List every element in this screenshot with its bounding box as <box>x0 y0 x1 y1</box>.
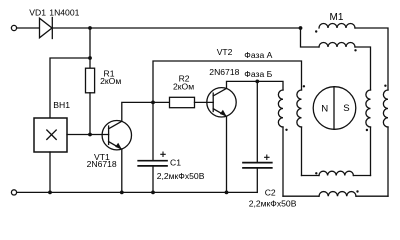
coil M1 right winding R1 <box>366 90 371 176</box>
polarity dot R1 <box>366 129 368 131</box>
svg-text:C2: C2 <box>265 187 276 197</box>
svg-text:2N6718: 2N6718 <box>209 67 239 77</box>
svg-text:M1: M1 <box>330 12 344 23</box>
coil M1 phase B top <box>319 24 388 91</box>
ground rail <box>17 191 258 193</box>
wire phase A riser <box>153 61 302 102</box>
svg-text:VT2: VT2 <box>217 47 233 57</box>
coil M1 right winding R2 <box>383 90 388 196</box>
coil M1 bottom phase B <box>283 192 388 197</box>
svg-text:2N6718: 2N6718 <box>87 159 117 169</box>
polarity dot top coil B <box>354 49 356 51</box>
svg-text:C1: C1 <box>170 158 181 168</box>
polarity dot R2 <box>384 85 386 87</box>
sensor BH1 <box>34 118 67 152</box>
capacitor C2 <box>243 81 272 192</box>
svg-text:2кОм: 2кОм <box>100 76 121 86</box>
coil M1 phase A top <box>301 28 371 90</box>
svg-text:N: N <box>321 103 328 114</box>
node ground BH1 <box>48 191 52 195</box>
wire VT2 emitter <box>226 116 228 192</box>
diode VD1 <box>40 18 53 39</box>
wire VT1 emitter <box>121 149 123 192</box>
terminal top-left <box>11 25 16 30</box>
wire BH1 bottom <box>49 152 51 192</box>
svg-text:2,2мкФх50В: 2,2мкФх50В <box>249 199 297 209</box>
node motor feed junction <box>299 26 303 30</box>
coil M1 left winding L1 <box>278 90 283 196</box>
svg-text:1N4001: 1N4001 <box>49 7 79 17</box>
svg-text:Фаза А: Фаза А <box>244 50 272 60</box>
resistor R1 <box>86 58 95 135</box>
svg-text:Фаза Б: Фаза Б <box>244 69 272 79</box>
svg-text:VD1: VD1 <box>29 7 46 17</box>
node ground VT1 <box>120 191 124 195</box>
polarity dot L1 <box>285 129 287 131</box>
node junction R1/BH1 <box>88 56 92 60</box>
resistor R2 <box>153 97 213 107</box>
svg-text:2кОм: 2кОм <box>173 81 194 91</box>
polarity dot L2 <box>303 85 305 87</box>
wire to BH1 top <box>50 58 90 118</box>
svg-text:BH1: BH1 <box>53 100 70 110</box>
wire top rail <box>52 27 300 29</box>
wire VT1 collector <box>122 102 153 121</box>
coil M1 left winding L2 <box>297 90 302 176</box>
coil M1 bottom phase A <box>302 171 371 175</box>
polarity dot bottom coil B <box>356 190 358 192</box>
capacitor C1 <box>138 102 167 192</box>
motor rotor M1 <box>313 87 356 130</box>
node C1 ground junction <box>151 191 155 195</box>
wire <box>17 27 40 29</box>
transistor VT1 <box>102 121 131 150</box>
polarity dot top coil A <box>315 30 317 32</box>
wire VT2 collector / phase B <box>227 81 284 90</box>
wire BH1 to VT1 base <box>67 134 109 136</box>
node VT2 emitter ground junction <box>225 191 229 195</box>
node top rail junction 1 <box>88 26 92 30</box>
terminal bottom-left <box>11 190 16 195</box>
svg-text:2,2мкФх50В: 2,2мкФх50В <box>157 171 205 181</box>
svg-text:S: S <box>343 103 349 114</box>
transistor VT2 <box>207 88 236 117</box>
polarity dot bottom coil A <box>315 172 317 174</box>
wire R1 drop <box>89 28 91 58</box>
node C2 top junction <box>255 80 259 84</box>
node base junction VT1 <box>88 133 92 137</box>
node VT1 collector junction <box>151 101 155 105</box>
